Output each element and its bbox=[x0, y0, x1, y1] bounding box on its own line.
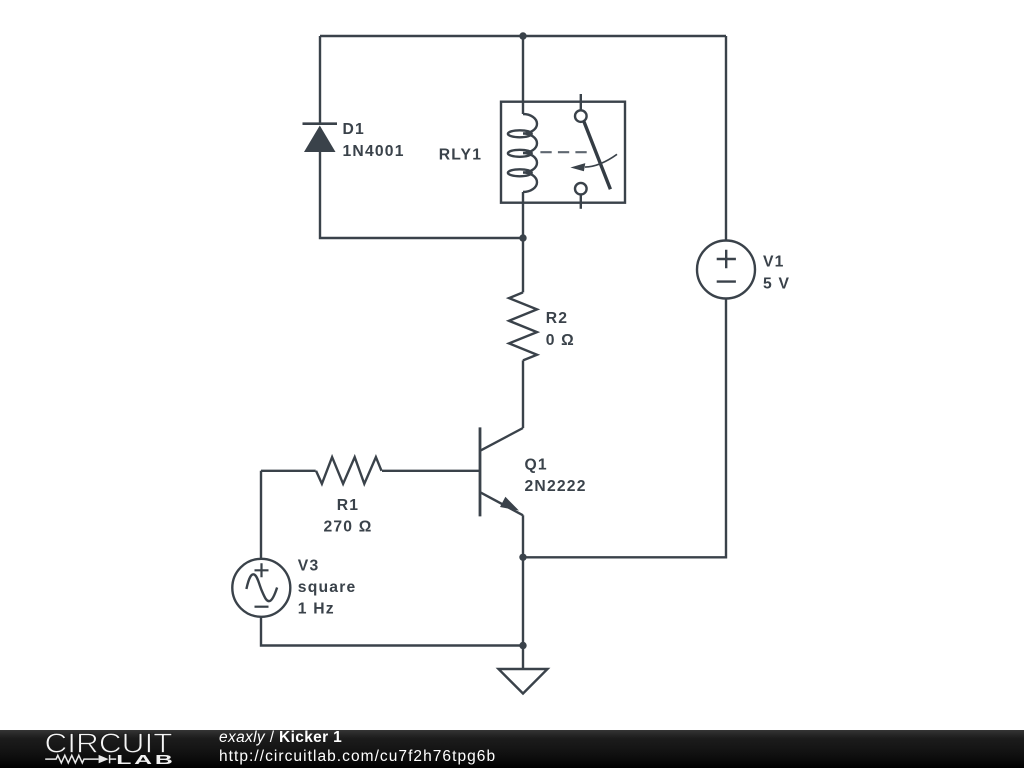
voltage source V3 bbox=[232, 559, 290, 617]
wire R1 to Q1 base bbox=[382, 470, 479, 472]
svg-text:D1: D1 bbox=[343, 121, 365, 138]
svg-text:Q1: Q1 bbox=[525, 456, 548, 473]
relay switch blade bbox=[584, 121, 611, 190]
relay switch bottom pin bbox=[575, 183, 587, 195]
svg-text:1N4001: 1N4001 bbox=[343, 143, 405, 160]
svg-text:V1: V1 bbox=[763, 253, 785, 270]
junction node emitter/V1 bbox=[519, 554, 526, 561]
wire V3 bottom to ground node bbox=[261, 617, 523, 646]
svg-text:0 Ω: 0 Ω bbox=[546, 332, 575, 349]
relay dashed link bbox=[540, 151, 587, 153]
wire V3 top vertical bbox=[260, 471, 262, 559]
resistor R1 bbox=[316, 457, 382, 484]
wire top rail bbox=[320, 35, 726, 37]
relay actuation arrow bbox=[570, 154, 617, 171]
transistor Q1 bbox=[480, 427, 523, 516]
footer bar bbox=[0, 730, 1024, 768]
svg-text:2N2222: 2N2222 bbox=[525, 478, 587, 495]
wire R2 bottom to Q1 collector bbox=[522, 360, 524, 428]
svg-text:square: square bbox=[298, 579, 357, 596]
wire left branch upper (to D1 cathode) bbox=[319, 36, 321, 124]
resistor R2 bbox=[509, 292, 537, 360]
wire relay coil feed bbox=[522, 36, 524, 114]
junction node top rail bbox=[519, 32, 526, 39]
svg-text:270 Ω: 270 Ω bbox=[323, 519, 372, 536]
svg-text:5 V: 5 V bbox=[763, 275, 790, 292]
relay RLY1 box bbox=[501, 102, 625, 203]
svg-text:V3: V3 bbox=[298, 557, 320, 574]
wire emitter node to V1 bottom bbox=[523, 298, 726, 557]
svg-text:R1: R1 bbox=[337, 497, 359, 514]
svg-text:R2: R2 bbox=[546, 310, 568, 327]
wire base left segment (V3 to R1) bbox=[261, 470, 316, 472]
diode D1 bbox=[303, 124, 338, 152]
relay switch top pin bbox=[580, 94, 582, 110]
footer title text bbox=[219, 729, 496, 766]
CircuitLab logo bbox=[0, 728, 190, 768]
wire left branch lower (D1 anode down and right to node) bbox=[320, 151, 523, 238]
wire ground stub bbox=[522, 646, 524, 670]
svg-text:RLY1: RLY1 bbox=[439, 147, 482, 164]
ground bbox=[499, 669, 548, 694]
junction node ground bbox=[519, 642, 526, 649]
wire coil bottom to R2 top bbox=[522, 192, 524, 292]
relay coil bbox=[508, 114, 537, 192]
voltage source V1 bbox=[697, 241, 755, 299]
svg-text:LAB: LAB bbox=[116, 753, 175, 768]
svg-text:1 Hz: 1 Hz bbox=[298, 601, 335, 618]
junction node D1/coil bbox=[519, 234, 526, 241]
wire V1 top vertical bbox=[725, 36, 727, 241]
wire emitter down bbox=[522, 515, 524, 645]
